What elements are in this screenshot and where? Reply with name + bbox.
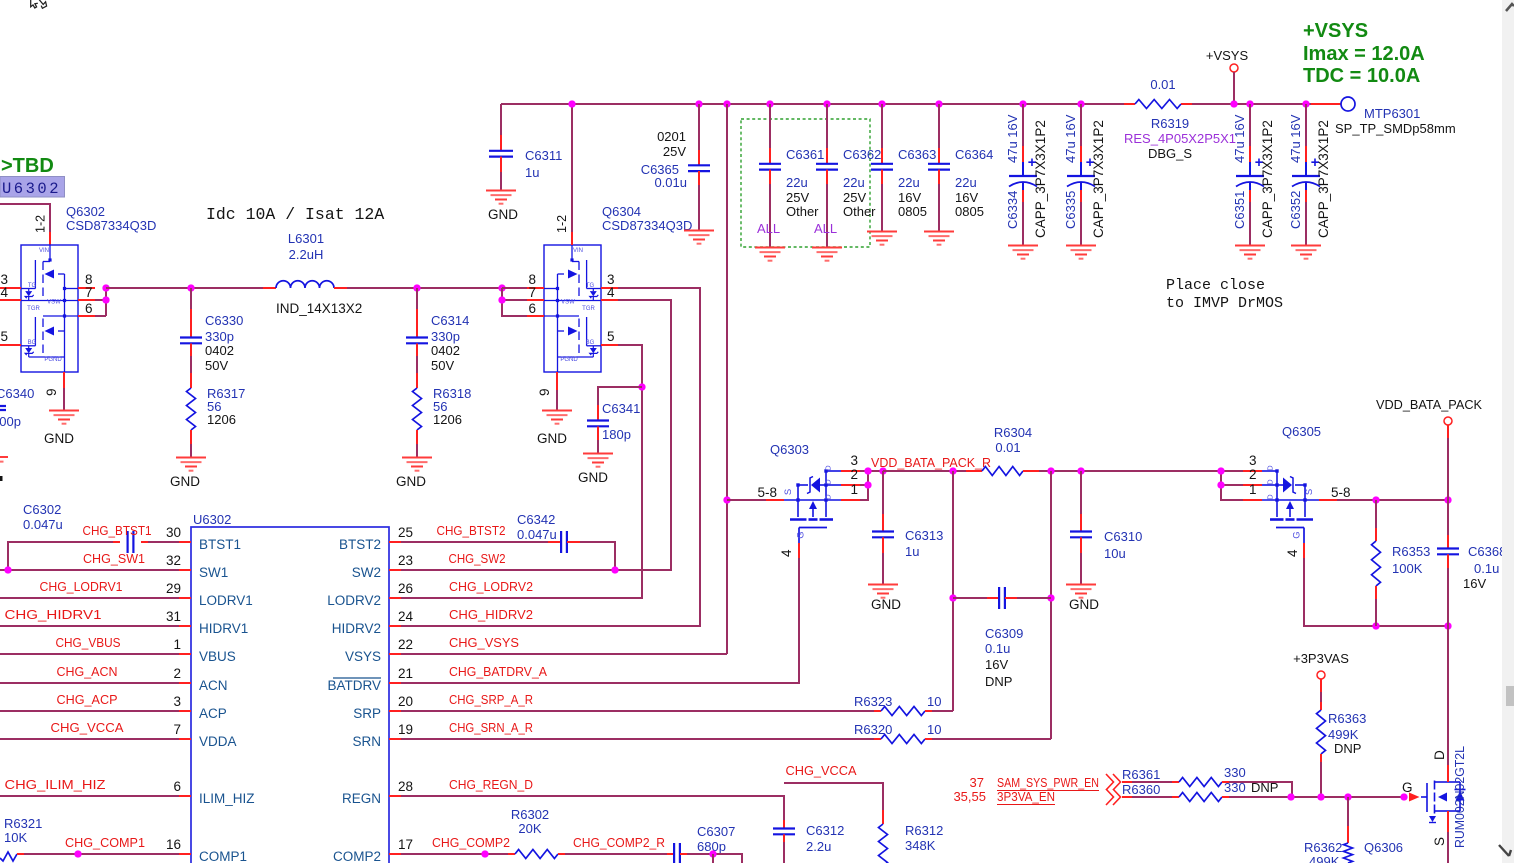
svg-text:LODRV2: LODRV2: [327, 593, 381, 608]
wire VIN top-left: [0, 204, 50, 232]
pin 6 ILIM_HIZ U6302: [179, 795, 191, 797]
pin 5 Q6304: [601, 344, 618, 346]
svg-text:32: 32: [166, 553, 181, 568]
capacitor C6364: [938, 104, 940, 148]
svg-text:C6312: C6312: [806, 823, 844, 838]
svg-text:7: 7: [85, 285, 93, 300]
junction: [879, 467, 886, 474]
svg-text:10: 10: [927, 722, 941, 737]
svg-text:C6314: C6314: [431, 313, 469, 328]
svg-text:TGR: TGR: [582, 306, 595, 312]
svg-text:C6340: C6340: [0, 386, 34, 401]
svg-text:35,55: 35,55: [953, 789, 986, 804]
svg-text:4: 4: [0, 285, 8, 300]
svg-text:0805: 0805: [955, 204, 984, 219]
svg-text:R6362: R6362: [1304, 840, 1342, 855]
junction: [1047, 594, 1054, 601]
svg-text:C6335: C6335: [1063, 191, 1078, 229]
svg-text:ACP: ACP: [199, 706, 227, 721]
wire VSYS bus: [501, 103, 1124, 105]
svg-text:CHG_LODRV1: CHG_LODRV1: [40, 579, 123, 594]
svg-text:47u 16V: 47u 16V: [1288, 114, 1303, 163]
svg-text:3P3VA_EN: 3P3VA_EN: [997, 789, 1055, 804]
wire Q6305 source: [1319, 499, 1337, 501]
svg-text:VIN: VIN: [573, 248, 583, 254]
svg-text:IND_14X13X2: IND_14X13X2: [276, 301, 362, 316]
svg-text:0.047u: 0.047u: [517, 527, 557, 542]
svg-text:G: G: [1402, 780, 1413, 795]
svg-text:499K: 499K: [1328, 727, 1359, 742]
dnp group box: [741, 119, 870, 247]
selected refdes U6302 highlight: [0, 177, 65, 198]
svg-text:28: 28: [398, 779, 413, 794]
capacitor C6311: [500, 104, 502, 135]
svg-text:R6360: R6360: [1122, 782, 1160, 797]
svg-text:C6351: C6351: [1232, 191, 1247, 229]
pin 1 VBUS U6302: [179, 653, 191, 655]
svg-text:R6361: R6361: [1122, 767, 1160, 782]
junction: [1317, 793, 1324, 800]
svg-text:CHG_ILIM_HIZ: CHG_ILIM_HIZ: [5, 777, 106, 792]
svg-text:50V: 50V: [431, 358, 454, 373]
pin 1 Q6305: [1243, 499, 1262, 501]
junction: [1372, 622, 1379, 629]
svg-text:SRN: SRN: [352, 734, 381, 749]
mouse cursor: [31, 0, 38, 8]
wire TGR Q6304 to SW2: [401, 300, 671, 570]
svg-text:C6307: C6307: [697, 824, 735, 839]
capacitor C6340 (clipped at edge): [0, 406, 6, 410]
svg-text:47u 16V: 47u 16V: [1063, 114, 1078, 163]
svg-text:CSD87334Q3D: CSD87334Q3D: [602, 218, 692, 233]
wire VSYS to Q6303 S: [727, 499, 766, 501]
junction: [638, 383, 645, 390]
resistor R6319: [1135, 100, 1181, 109]
svg-text:CHG_COMP2_R: CHG_COMP2_R: [573, 835, 665, 850]
ground Q6304 pin9: [542, 411, 572, 424]
svg-text:U6302: U6302: [193, 512, 231, 527]
svg-text:47u 16V: 47u 16V: [1005, 114, 1020, 163]
svg-text:20: 20: [398, 694, 413, 709]
svg-text:330p: 330p: [431, 329, 460, 344]
svg-text:RES_4P05X2P5X1: RES_4P05X2P5X1: [1124, 131, 1236, 146]
svg-text:Q6305: Q6305: [1282, 424, 1321, 439]
pin 23 SW2 U6302: [389, 569, 401, 571]
ground Q6302 pin9: [49, 411, 79, 424]
svg-text:L6301: L6301: [288, 231, 324, 246]
pin 4 Q6304: [601, 299, 618, 301]
svg-text:R6319: R6319: [1151, 116, 1189, 131]
svg-text:CHG_BATDRV_A: CHG_BATDRV_A: [449, 664, 547, 679]
pin 8 Q6302: [78, 287, 95, 289]
svg-text:VIN: VIN: [39, 248, 49, 254]
junction: [935, 100, 942, 107]
svg-text:GND: GND: [871, 597, 901, 612]
svg-text:5: 5: [607, 329, 615, 344]
svg-text:10K: 10K: [4, 830, 27, 845]
svg-text:RUM002N02GT2L: RUM002N02GT2L: [1452, 746, 1467, 848]
svg-text:C6352: C6352: [1288, 191, 1303, 229]
pin 31 HIDRV1 U6302: [179, 625, 191, 627]
svg-text:S: S: [1304, 489, 1315, 495]
power +3P3VAS: [1317, 671, 1325, 679]
pin 29 LODRV1 U6302: [179, 597, 191, 599]
svg-text:31: 31: [166, 609, 181, 624]
wire Q6305 drains: [1221, 484, 1243, 486]
svg-text:+3P3VAS: +3P3VAS: [1293, 651, 1349, 666]
junction: [1217, 467, 1224, 474]
svg-text:TG: TG: [586, 283, 595, 289]
svg-text:CHG_ACN: CHG_ACN: [57, 664, 118, 679]
svg-text:C6341: C6341: [602, 401, 640, 416]
pin 9 Q6302: [63, 372, 65, 388]
svg-text:R6353: R6353: [1392, 544, 1430, 559]
junction: [1400, 793, 1407, 800]
junction: [723, 496, 730, 503]
svg-text:47u 16V: 47u 16V: [1232, 114, 1247, 163]
svg-text:330: 330: [1224, 780, 1246, 795]
svg-text:SRP: SRP: [353, 706, 381, 721]
test point MTP6301: [1311, 103, 1341, 105]
wire after C6307: [687, 854, 742, 863]
wire CHG_COMP1: [24, 853, 179, 855]
wire CHG_VBUS: [0, 653, 179, 655]
junction: [766, 100, 773, 107]
svg-text:CHG_VSYS: CHG_VSYS: [449, 635, 519, 650]
wire VDD_BATA_PACK_R: [883, 470, 966, 472]
svg-text:BTST2: BTST2: [339, 537, 381, 552]
svg-text:VBUS: VBUS: [199, 649, 236, 664]
svg-text:7: 7: [173, 722, 181, 737]
svg-text:VDD_BATA_PACK_R: VDD_BATA_PACK_R: [871, 455, 991, 470]
svg-text:TGR: TGR: [27, 306, 40, 312]
resistor R6362: [1347, 797, 1349, 826]
svg-text:CHG_VCCA: CHG_VCCA: [51, 720, 124, 735]
svg-text:C6302: C6302: [23, 502, 61, 517]
svg-text:1206: 1206: [207, 412, 236, 427]
pin 2 Q6305: [1243, 484, 1262, 486]
svg-text:22u: 22u: [955, 175, 977, 190]
svg-text:9: 9: [44, 388, 59, 396]
resistor R6353: [1375, 500, 1377, 528]
svg-text:GND: GND: [537, 431, 567, 446]
pin 3 Q6302: [0, 287, 21, 289]
svg-text:30: 30: [166, 525, 181, 540]
wire Q6306 source: [1447, 811, 1449, 832]
pin 17 COMP2 U6302: [389, 853, 401, 855]
capacitor C6351: [1249, 104, 1251, 146]
svg-text:GND: GND: [1069, 597, 1099, 612]
svg-text:4: 4: [607, 285, 615, 300]
svg-text:HIDRV2: HIDRV2: [332, 621, 381, 636]
junction: [1287, 793, 1294, 800]
ground C6311: [486, 191, 516, 204]
junction: [949, 467, 956, 474]
ground C6335: [1066, 246, 1096, 259]
svg-text:180p: 180p: [602, 427, 631, 442]
svg-text:1: 1: [850, 482, 858, 497]
capacitor C6302: [8, 542, 113, 570]
svg-text:10u: 10u: [1104, 546, 1126, 561]
svg-text:ALL: ALL: [757, 221, 780, 236]
svg-text:1u: 1u: [905, 544, 919, 559]
svg-text:VDDA: VDDA: [199, 734, 237, 749]
junction: [1302, 100, 1309, 107]
ground C6340 (clipped): [0, 457, 8, 470]
svg-text:ALL: ALL: [814, 221, 837, 236]
svg-text:CAPP_3P7X3X1P2: CAPP_3P7X3X1P2: [1260, 120, 1275, 238]
power +VSYS: [1230, 64, 1238, 72]
wire Q6303 drains: [860, 470, 883, 472]
ground C6334: [1008, 246, 1038, 259]
svg-text:CAPP_3P7X3X1P2: CAPP_3P7X3X1P2: [1316, 120, 1331, 238]
svg-text:R6312: R6312: [905, 823, 943, 838]
svg-text:330p: 330p: [205, 329, 234, 344]
svg-text:+VSYS: +VSYS: [1206, 48, 1249, 63]
resistor R6360: [1122, 796, 1132, 798]
svg-text:1: 1: [173, 637, 181, 652]
svg-text:0402: 0402: [431, 343, 460, 358]
transistor Q6303: [784, 471, 841, 517]
junction: [1246, 100, 1253, 107]
svg-text:1-2: 1-2: [34, 215, 48, 233]
junction: [1372, 496, 1379, 503]
svg-text:CHG_SW2: CHG_SW2: [449, 551, 506, 566]
svg-text:16V: 16V: [955, 190, 978, 205]
svg-text:22u: 22u: [898, 175, 920, 190]
svg-text:CHG_ACP: CHG_ACP: [57, 692, 118, 707]
pin 3 Q6304: [601, 287, 618, 289]
ground C6364: [924, 232, 954, 245]
svg-text:16V: 16V: [985, 657, 1008, 672]
junction: [1047, 467, 1054, 474]
resistor R6304: [966, 470, 982, 472]
svg-text:6: 6: [173, 779, 181, 794]
capacitor C6313: [882, 471, 884, 514]
svg-text:50V: 50V: [205, 358, 228, 373]
svg-text:COMP2: COMP2: [333, 849, 381, 863]
svg-text:0.1u: 0.1u: [1474, 561, 1499, 576]
pin 28 REGN U6302: [389, 795, 401, 797]
junction: [568, 100, 575, 107]
svg-text:1206: 1206: [433, 412, 462, 427]
junction: [74, 850, 81, 857]
svg-text:CHG_BTST2: CHG_BTST2: [437, 523, 506, 538]
svg-text:C6330: C6330: [205, 313, 243, 328]
wire CHG_VCCA: [784, 783, 883, 810]
wire pin9 to gnd: [63, 388, 65, 410]
svg-text:COMP1: COMP1: [199, 849, 247, 863]
svg-text:C6313: C6313: [905, 528, 943, 543]
capacitor C6335: [1080, 104, 1082, 146]
svg-text:R6363: R6363: [1328, 711, 1366, 726]
svg-text:16V: 16V: [1463, 576, 1486, 591]
svg-text:HIDRV1: HIDRV1: [199, 621, 248, 636]
wire BATDRV to Q6303 gate: [401, 558, 799, 683]
capacitor C6307: [565, 853, 667, 855]
capacitor C6330: [190, 288, 192, 309]
pin 3 ACP U6302: [179, 710, 191, 712]
svg-text:37: 37: [970, 775, 984, 790]
wire CHG_ILIM_HIZ: [0, 795, 179, 797]
svg-text:ACN: ACN: [199, 678, 228, 693]
pin 7 Q6304: [527, 299, 544, 301]
junction: [1444, 622, 1451, 629]
svg-text:G: G: [1292, 531, 1303, 538]
junction: [949, 594, 956, 601]
svg-text:ILIM_HIZ: ILIM_HIZ: [199, 791, 255, 806]
pin 4 Q6302: [0, 299, 21, 301]
svg-text:GND: GND: [396, 474, 426, 489]
svg-text:CHG_COMP1: CHG_COMP1: [65, 835, 145, 850]
wire BG Q6304 to LODRV2: [401, 345, 642, 598]
svg-text:5: 5: [0, 329, 8, 344]
svg-text:9: 9: [537, 388, 552, 396]
pin 7 VDDA U6302: [179, 738, 191, 740]
wire VDD_BATA_PACK: [1447, 425, 1449, 438]
junction: [413, 284, 420, 291]
ground C6310: [1066, 585, 1096, 598]
svg-text:6: 6: [85, 301, 93, 316]
capacitor C6363: [881, 104, 883, 148]
svg-text:BG: BG: [28, 340, 37, 346]
wire SW1 to inductor: [106, 287, 263, 289]
svg-text:PGND: PGND: [560, 357, 578, 363]
junction: [864, 467, 871, 474]
pin 2 ACN U6302: [179, 682, 191, 684]
svg-text:24: 24: [398, 609, 414, 624]
svg-text:300p: 300p: [0, 414, 21, 429]
ground C6362: [812, 248, 842, 261]
junction: [823, 100, 830, 107]
pin 30 BTST1 U6302: [179, 541, 191, 543]
ground C6361: [755, 248, 785, 261]
svg-text:0.1u: 0.1u: [985, 641, 1010, 656]
svg-text:3: 3: [1249, 453, 1257, 468]
svg-text:CHG_VBUS: CHG_VBUS: [56, 635, 121, 650]
svg-text:C6309: C6309: [985, 626, 1023, 641]
wire VSYS to pin22 and Q6303: [726, 104, 728, 654]
svg-text:Place close: Place close: [1166, 277, 1265, 294]
svg-text:VSYS: VSYS: [345, 649, 381, 664]
svg-text:PGND: PGND: [44, 357, 62, 363]
pin 20 SRP U6302: [389, 710, 401, 712]
junction: [1019, 100, 1026, 107]
svg-text:16V: 16V: [898, 190, 921, 205]
svg-text:D: D: [1266, 494, 1275, 500]
svg-text:GND: GND: [488, 207, 518, 222]
svg-text:Imax = 12.0A: Imax = 12.0A: [1303, 43, 1425, 65]
svg-text:Q6306: Q6306: [1364, 840, 1403, 855]
transistor Q6304: [544, 245, 601, 372]
resistor R6323: [401, 710, 874, 712]
wire CHG_LODRV1: [0, 597, 179, 599]
svg-text:R6320: R6320: [854, 722, 892, 737]
svg-text:C6311: C6311: [525, 148, 562, 163]
svg-text:C6342: C6342: [517, 512, 555, 527]
junction: [102, 296, 109, 303]
svg-text:D: D: [824, 494, 833, 500]
junction: [498, 284, 505, 291]
svg-text:GND: GND: [170, 474, 200, 489]
svg-text:22u: 22u: [786, 175, 808, 190]
pin 22 VSYS U6302: [389, 653, 401, 655]
scrollbar: [1502, 0, 1514, 863]
ground C6341: [583, 454, 613, 467]
pin 21 BATDRV U6302: [389, 682, 401, 684]
pin 8 Q6304: [527, 287, 544, 289]
wire TG Q6304 to HIDRV2: [401, 288, 700, 626]
wire REGN to C6312: [401, 796, 784, 820]
resistor R6361: [1122, 781, 1132, 783]
svg-text:3: 3: [850, 453, 858, 468]
svg-text:SP_TP_SMDp58mm: SP_TP_SMDp58mm: [1335, 121, 1456, 136]
wire CHG_HIDRV1: [0, 625, 179, 627]
junction: [1444, 496, 1451, 503]
svg-text:25: 25: [398, 525, 413, 540]
svg-text:SW1: SW1: [199, 565, 228, 580]
ground C6365: [684, 231, 714, 244]
svg-text:2: 2: [1249, 467, 1257, 482]
capacitor C6312: [783, 820, 785, 828]
svg-text:2.2uH: 2.2uH: [289, 247, 324, 262]
capacitor C6334: [1022, 104, 1024, 146]
svg-text:TDC = 10.0A: TDC = 10.0A: [1303, 65, 1420, 87]
svg-text:SAM_SYS_PWR_EN: SAM_SYS_PWR_EN: [997, 775, 1099, 790]
svg-text:5-8: 5-8: [1331, 485, 1351, 500]
ground C6363: [867, 232, 897, 245]
svg-text:DNP: DNP: [1251, 780, 1278, 795]
wire pin9 Q6304 to gnd: [556, 390, 558, 410]
inductor L6301: [263, 287, 276, 289]
capacitor C6361: [769, 104, 771, 148]
junction: [187, 284, 194, 291]
resistor R6321: [0, 852, 17, 861]
junction: [1230, 100, 1237, 107]
capacitor C6342: [401, 541, 548, 543]
svg-text:21: 21: [398, 666, 413, 681]
svg-text:499K: 499K: [1309, 854, 1340, 863]
svg-text:DBG_S: DBG_S: [1148, 146, 1192, 161]
resistor R6302: [508, 853, 515, 855]
wire CHG_ACN: [0, 682, 179, 684]
svg-text:Q6304: Q6304: [602, 204, 641, 219]
svg-text:CHG_BTST1: CHG_BTST1: [83, 523, 152, 538]
svg-text:22u: 22u: [843, 175, 865, 190]
svg-text:BTST1: BTST1: [199, 537, 241, 552]
svg-text:DNP: DNP: [985, 674, 1012, 689]
svg-text:0402: 0402: [205, 343, 234, 358]
svg-text:CHG_HIDRV2: CHG_HIDRV2: [449, 607, 533, 622]
svg-text:0805: 0805: [898, 204, 927, 219]
svg-text:Q6303: Q6303: [770, 442, 809, 457]
svg-text:0201: 0201: [657, 129, 686, 144]
svg-text:CHG_HIDRV1: CHG_HIDRV1: [5, 607, 102, 622]
ground C6351: [1235, 246, 1265, 259]
junction: [864, 481, 871, 488]
svg-text:Other: Other: [843, 204, 876, 219]
junction: [611, 566, 618, 573]
pin 32 SW1 U6302: [179, 569, 191, 571]
pin 16 COMP1 U6302: [179, 853, 191, 855]
junction: [1344, 793, 1351, 800]
capacitor C6341: [598, 387, 642, 405]
svg-text:19: 19: [398, 722, 413, 737]
svg-text:Other: Other: [786, 204, 819, 219]
wire C6309 legs: [952, 471, 954, 711]
pin 24 HIDRV2 U6302: [389, 625, 401, 627]
svg-text:U6302: U6302: [2, 180, 61, 198]
